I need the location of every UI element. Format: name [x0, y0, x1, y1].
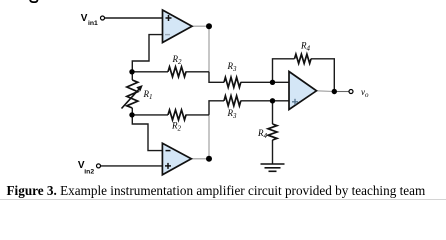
svg-text:R1: R1 — [143, 89, 153, 101]
svg-text:R4: R4 — [257, 128, 268, 140]
svg-text:R2: R2 — [172, 54, 183, 66]
svg-text:R2: R2 — [171, 121, 182, 133]
svg-text:in2: in2 — [84, 168, 94, 175]
svg-text:R3: R3 — [227, 108, 238, 120]
svg-text:R3: R3 — [227, 61, 238, 73]
svg-text:R4: R4 — [300, 41, 311, 53]
svg-text:vo: vo — [361, 87, 369, 99]
svg-text:in1: in1 — [88, 20, 98, 27]
svg-text:V: V — [81, 13, 88, 24]
